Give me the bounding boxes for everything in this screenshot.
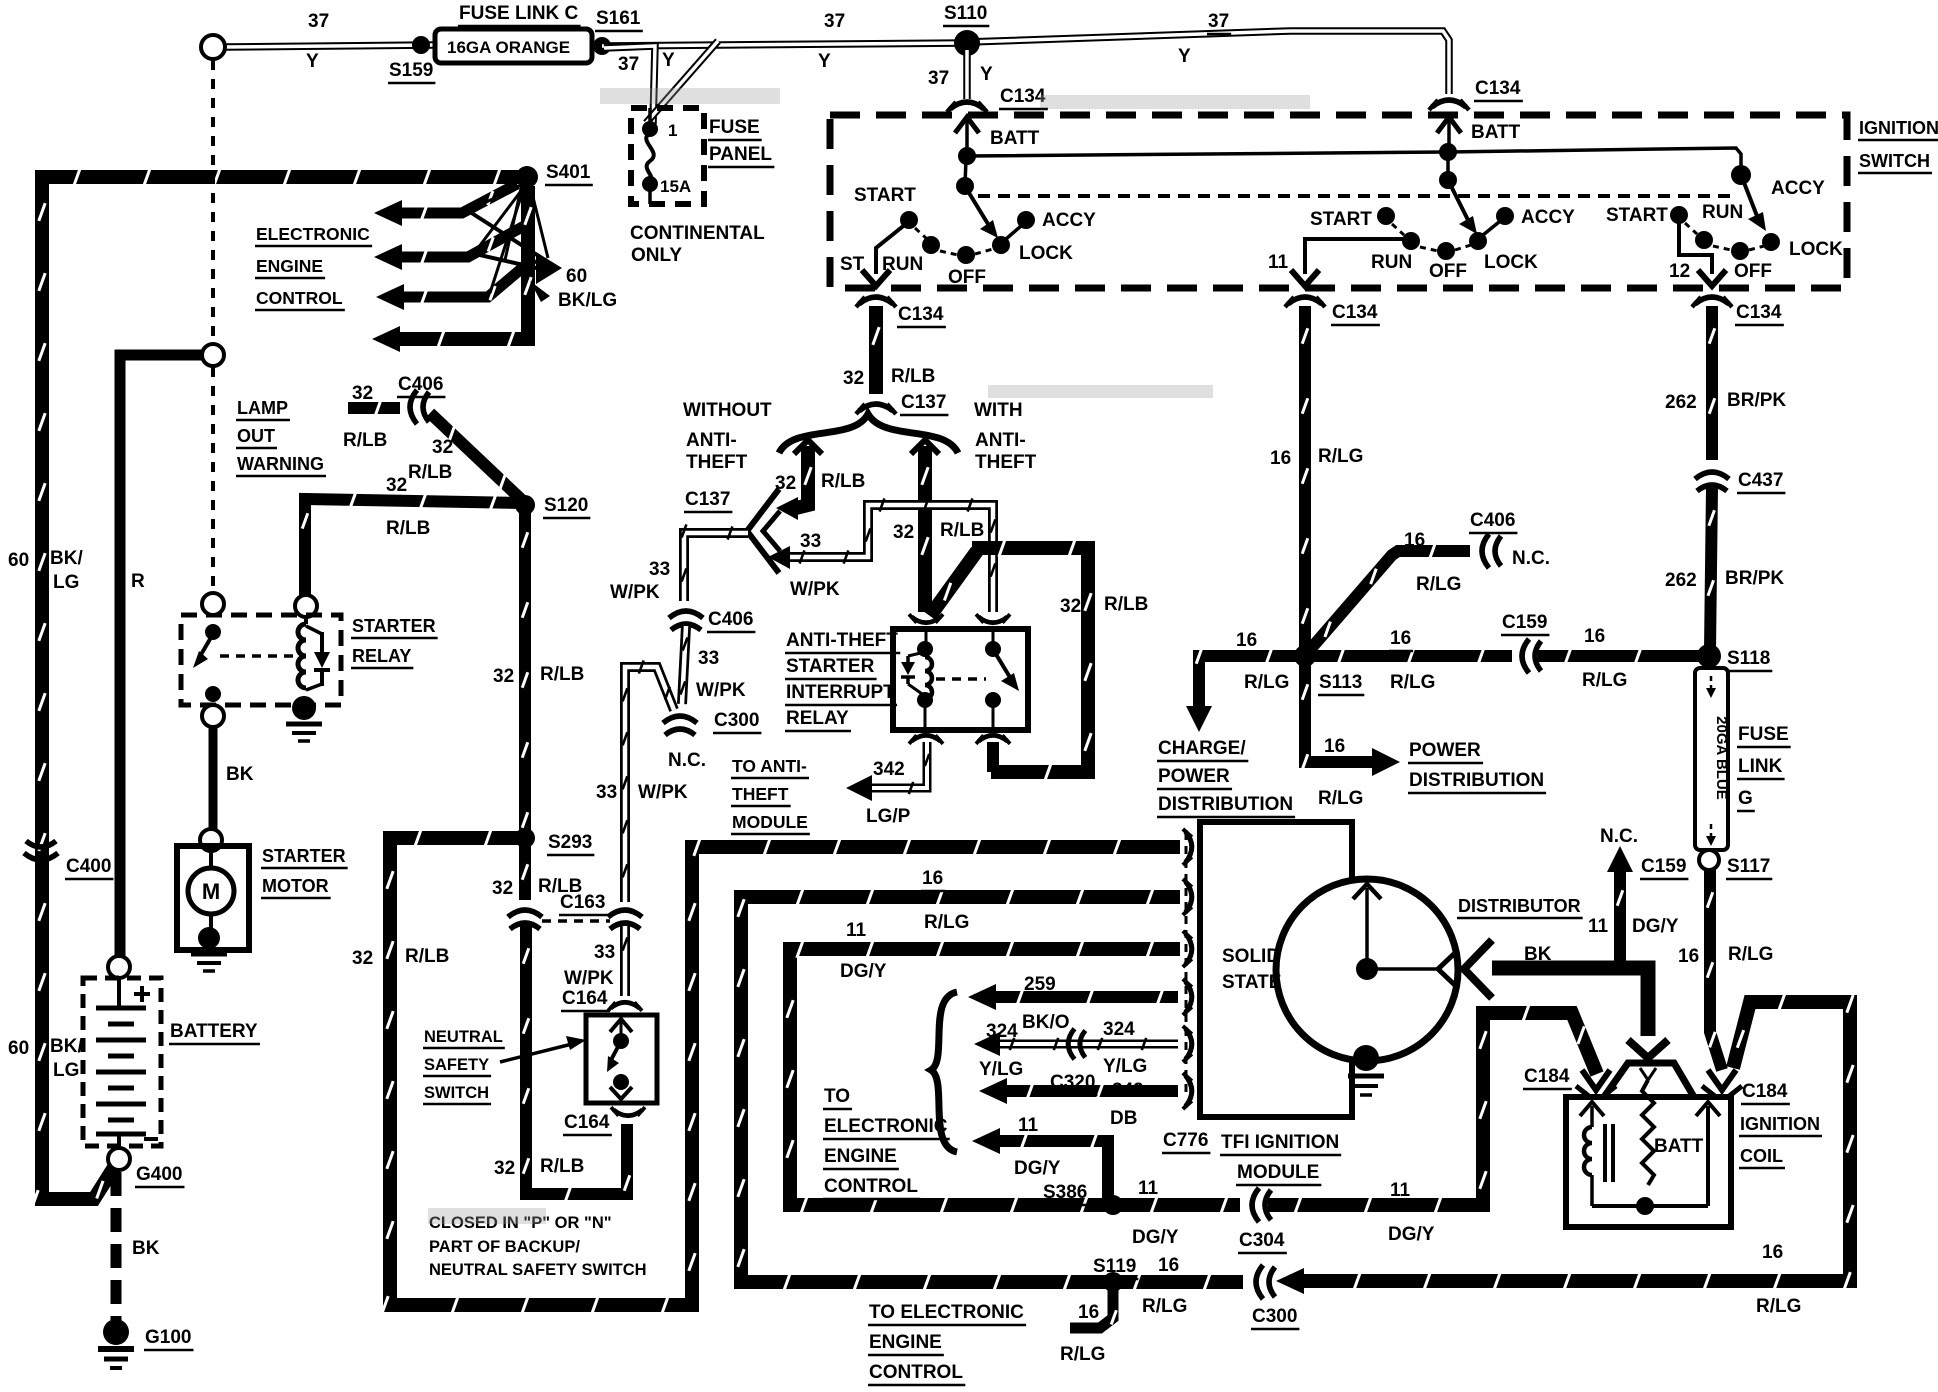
svg-text:STATE: STATE	[1222, 972, 1281, 993]
connector C406 mid	[669, 611, 703, 630]
node S159	[412, 36, 430, 54]
relay pin arc bottom-left	[909, 735, 943, 744]
svg-text:16: 16	[1236, 630, 1257, 651]
svg-text:LINK: LINK	[1738, 756, 1783, 777]
svg-text:R/LG: R/LG	[1756, 1296, 1801, 1317]
svg-text:R/LG: R/LG	[924, 912, 969, 933]
node S293	[515, 828, 535, 848]
wire 33 W/PK C163 to C164	[623, 926, 628, 996]
rotor arrowhead	[1353, 884, 1381, 899]
node S401	[516, 166, 538, 188]
svg-text:WITH: WITH	[974, 400, 1023, 421]
batt feed line	[967, 148, 1741, 168]
svg-text:R/LB: R/LB	[540, 664, 584, 685]
wire 262 BR/PK C437 to S118	[1708, 488, 1714, 650]
battery plus	[140, 986, 144, 1002]
relay inner left lead	[925, 632, 928, 644]
svg-text:FUSE: FUSE	[709, 117, 760, 138]
svg-text:16: 16	[1078, 1302, 1099, 1323]
svg-text:C406: C406	[398, 374, 443, 395]
wire 33 W/PK C137 to C406	[682, 524, 748, 601]
arrowhead 60 BK/LG right	[536, 252, 562, 284]
module arc pin 4	[1183, 979, 1192, 1015]
svg-text:R/LB: R/LB	[386, 518, 430, 539]
svg-text:16: 16	[1584, 626, 1605, 647]
node G400 open circle	[108, 1148, 130, 1170]
relay pin arc bottom-right	[976, 735, 1010, 744]
svg-text:12: 12	[1669, 261, 1690, 282]
svg-text:LG/P: LG/P	[866, 806, 911, 827]
mid bank contact LOCK	[1469, 232, 1487, 250]
mid bank contact ACCY	[1496, 207, 1514, 225]
diagonal 32 R/LB into relay left pin	[930, 551, 977, 616]
connector C164 top	[608, 1002, 642, 1011]
svg-text:POWER: POWER	[1409, 740, 1481, 761]
TFI module box	[1200, 822, 1352, 1117]
svg-text:Y: Y	[662, 50, 675, 71]
arrow EEC 4	[372, 326, 400, 352]
svg-text:R/LB: R/LB	[343, 430, 387, 451]
svg-text:DISTRIBUTION: DISTRIBUTION	[1409, 770, 1544, 791]
svg-text:C134: C134	[1332, 302, 1378, 323]
fuse link C box 16GA ORANGE	[435, 29, 592, 63]
right bank dashed arcs	[1685, 223, 1697, 234]
left bank ACCY-LOCK link	[1006, 226, 1021, 239]
fuse link G box	[1695, 668, 1728, 850]
arrow power distribution	[1372, 748, 1400, 776]
wire S119 stub down	[1070, 1287, 1116, 1328]
svg-text:OFF: OFF	[1734, 261, 1772, 282]
svg-text:CHARGE/: CHARGE/	[1158, 738, 1246, 759]
ground G100	[98, 1346, 134, 1352]
wire S113 to C159	[1311, 648, 1512, 663]
svg-text:37: 37	[618, 54, 639, 75]
svg-text:32: 32	[843, 368, 864, 389]
svg-text:Y: Y	[1178, 46, 1191, 67]
relay ground dot	[292, 696, 316, 720]
arrow 11 DG/Y	[972, 1128, 1000, 1154]
connector C184 left	[1582, 1070, 1610, 1090]
svg-text:262: 262	[1665, 392, 1697, 413]
svg-text:BK/: BK/	[50, 548, 83, 569]
fuse link G dashes	[1710, 676, 1713, 690]
motor M circle	[188, 868, 234, 914]
wire S401 branch down	[392, 186, 531, 348]
BATT arrow right	[1437, 117, 1461, 133]
svg-text:THEFT: THEFT	[732, 784, 789, 804]
svg-text:ENGINE: ENGINE	[256, 256, 323, 276]
svg-text:32: 32	[494, 1158, 515, 1179]
right bank contact LOCK	[1762, 233, 1780, 251]
module arc pin 1	[1183, 829, 1192, 865]
svg-text:C437: C437	[1738, 470, 1783, 491]
wire BK relay to motor	[209, 727, 218, 830]
svg-text:G100: G100	[145, 1327, 191, 1348]
right bank contact RUN	[1695, 231, 1713, 249]
wire relay BR pin to loop	[987, 742, 999, 772]
connector C400	[24, 841, 58, 860]
svg-text:G400: G400	[136, 1164, 182, 1185]
pickup line	[1367, 967, 1442, 971]
svg-text:324: 324	[1103, 1019, 1135, 1040]
svg-text:WITHOUT: WITHOUT	[683, 400, 772, 421]
arrow DB	[979, 1078, 1007, 1104]
relay inner right lead	[992, 632, 995, 644]
connector C159	[1522, 639, 1541, 673]
svg-text:C304: C304	[1239, 1230, 1285, 1251]
wire 11 DG/Y C304 to coil C184 left	[1268, 1004, 1597, 1214]
node open circle battery top	[108, 956, 130, 978]
left bank contact RUN	[922, 236, 940, 254]
wire 16 R/LG loop coil to C300	[1296, 993, 1853, 1290]
wire 33 W/PK to relay right pin	[784, 498, 995, 612]
svg-text:33: 33	[698, 648, 719, 669]
svg-text:R/LB: R/LB	[540, 1156, 584, 1177]
svg-text:START: START	[1310, 209, 1372, 230]
svg-text:BK: BK	[132, 1238, 160, 1259]
wire charge branch	[1196, 648, 1299, 706]
svg-text:MODULE: MODULE	[1237, 1162, 1319, 1183]
svg-text:CONTINENTAL: CONTINENTAL	[630, 223, 765, 244]
coil left chevron	[1580, 1102, 1604, 1116]
switch arm mid	[1449, 182, 1468, 220]
svg-text:Y: Y	[818, 51, 831, 72]
connector C300 bottom	[1256, 1265, 1275, 1299]
svg-text:16: 16	[1404, 530, 1425, 551]
svg-text:S161: S161	[596, 8, 641, 29]
connector C137 lower chevrons	[747, 489, 779, 573]
svg-text:C406: C406	[708, 609, 753, 630]
ignition coil top trapezoid	[1604, 1063, 1694, 1097]
svg-text:RUN: RUN	[1371, 252, 1412, 273]
svg-text:C300: C300	[1252, 1306, 1297, 1327]
svg-text:16: 16	[1762, 1242, 1783, 1263]
svg-text:BK/LG: BK/LG	[558, 290, 617, 311]
svg-text:16: 16	[1390, 628, 1411, 649]
svg-text:S401: S401	[546, 162, 591, 183]
svg-text:ACCY: ACCY	[1771, 178, 1825, 199]
svg-text:R/LG: R/LG	[1318, 446, 1363, 467]
wire S110 down to C134	[963, 50, 971, 99]
arrow 12	[1698, 270, 1726, 286]
ST output line	[876, 223, 907, 274]
svg-text:DG/Y: DG/Y	[1388, 1224, 1435, 1245]
svg-text:BR/PK: BR/PK	[1727, 390, 1786, 411]
wire 16 R/LG C134 to S113	[1302, 306, 1308, 650]
node open circle relay switch top	[202, 593, 224, 615]
coil secondary winding	[1590, 1106, 1594, 1127]
svg-text:11: 11	[1390, 1180, 1411, 1201]
arrow EEC 2	[374, 244, 402, 270]
right bank contact START	[1670, 206, 1688, 224]
BK arrow into distributor	[1464, 940, 1492, 998]
wire power distribution branch	[1302, 662, 1372, 770]
inner fine dashed line	[978, 194, 1738, 198]
svg-text:20GA BLUE: 20GA BLUE	[1713, 716, 1730, 800]
arrow 324	[974, 1032, 1000, 1056]
svg-text:S118: S118	[1727, 648, 1770, 669]
svg-text:C300: C300	[714, 710, 759, 731]
wire DB	[1000, 1083, 1178, 1098]
arrow 342 to anti-theft module	[846, 775, 872, 801]
svg-text:R/LB: R/LB	[891, 366, 935, 387]
battery bottom lead	[117, 1134, 121, 1148]
left bank contact LOCK	[992, 236, 1010, 254]
node S118	[1697, 644, 1721, 668]
relay diode	[306, 626, 322, 634]
svg-text:STARTER: STARTER	[352, 616, 436, 636]
svg-text:R/LG: R/LG	[1318, 788, 1363, 809]
ground starter motor	[191, 952, 227, 957]
relay switch arm	[994, 651, 1011, 679]
coil right chevron	[1696, 1102, 1720, 1116]
svg-text:R/LB: R/LB	[940, 520, 984, 541]
wire 324 Y/LG thin	[994, 1038, 1178, 1050]
svg-text:R/LG: R/LG	[1728, 944, 1773, 965]
svg-text:R/LG: R/LG	[1416, 574, 1461, 595]
svg-text:32: 32	[386, 475, 407, 496]
anti-theft relay box	[893, 629, 1028, 730]
svg-text:16GA ORANGE: 16GA ORANGE	[447, 38, 570, 57]
right bank contact OFF	[1731, 242, 1749, 260]
arrow EEC 1	[374, 200, 402, 226]
wire 32 R/LB right branch to relay	[922, 446, 928, 612]
connector C184 right	[1708, 1070, 1736, 1090]
NSS bottom chevron	[610, 1087, 632, 1099]
fuse panel dashed box	[631, 108, 704, 204]
wire 37 Y S161 to S110	[602, 43, 966, 46]
svg-text:S113: S113	[1319, 672, 1362, 693]
svg-text:C776: C776	[1163, 1130, 1208, 1151]
svg-text:CONTROL: CONTROL	[256, 288, 343, 308]
svg-text:32: 32	[1060, 596, 1081, 617]
svg-text:33: 33	[594, 942, 615, 963]
svg-text:DISTRIBUTOR: DISTRIBUTOR	[1458, 896, 1581, 916]
noise patch 1	[600, 88, 780, 104]
svg-text:16: 16	[1270, 448, 1291, 469]
connector C304	[1252, 1188, 1271, 1222]
coil primary winding zigzag	[1642, 1080, 1654, 1185]
svg-text:C137: C137	[685, 489, 730, 510]
switch arm right	[1743, 180, 1757, 216]
svg-text:R/LG: R/LG	[1582, 670, 1627, 691]
left bank contact ACCY	[1017, 211, 1035, 229]
relay inner coil	[925, 657, 932, 699]
svg-text:BATT: BATT	[1471, 122, 1521, 143]
svg-text:ELECTRONIC: ELECTRONIC	[256, 224, 370, 244]
svg-text:32: 32	[432, 437, 453, 458]
wire 32 R/LB inner loop to C164 bottom	[523, 926, 630, 1202]
svg-text:TO ANTI-: TO ANTI-	[732, 756, 807, 776]
svg-text:N.C.: N.C.	[668, 750, 706, 771]
fuse panel bottom lead	[648, 187, 652, 204]
svg-text:16: 16	[1324, 736, 1345, 757]
switch arm left	[966, 188, 988, 224]
connector C134 top left	[947, 102, 987, 112]
svg-text:MODULE: MODULE	[732, 812, 808, 832]
svg-text:NEUTRAL: NEUTRAL	[424, 1028, 503, 1046]
arrow N.C. C159 up	[1607, 846, 1633, 872]
NSS top chevron	[610, 1019, 632, 1032]
dashed link between C163 halves	[542, 919, 610, 923]
svg-text:33: 33	[596, 782, 617, 803]
connector C406 top	[410, 390, 429, 424]
wire 342 LG/P	[866, 742, 929, 794]
svg-text:LG: LG	[53, 1060, 79, 1081]
svg-text:BK/O: BK/O	[1022, 1012, 1070, 1033]
wire 32 R/LB C134 to C137	[873, 306, 879, 394]
svg-text:60: 60	[566, 266, 587, 287]
brace TO EEC	[931, 992, 957, 1152]
svg-text:R/LB: R/LB	[408, 462, 452, 483]
svg-text:BK: BK	[1524, 944, 1552, 965]
svg-text:LAMP: LAMP	[237, 398, 288, 418]
distributor rotor line	[1365, 888, 1369, 968]
svg-text:C159: C159	[1502, 612, 1547, 633]
ACCY dot right bank	[1731, 165, 1751, 185]
node S119	[1103, 1272, 1123, 1292]
module arc pin 6	[1183, 1073, 1192, 1109]
noise patch 2	[1040, 95, 1310, 109]
svg-text:262: 262	[1665, 570, 1697, 591]
svg-text:W/PK: W/PK	[696, 680, 746, 701]
left bank contact START	[900, 211, 918, 229]
wire BK battery to G100 dashed	[111, 1172, 122, 1320]
connector C163 left	[508, 910, 542, 929]
wire 33 W/PK C406 to C300	[680, 626, 687, 704]
svg-text:C164: C164	[564, 1112, 610, 1133]
svg-text:R/LG: R/LG	[1060, 1344, 1105, 1365]
connector C134 bottom left	[856, 297, 896, 307]
svg-text:DISTRIBUTION: DISTRIBUTION	[1158, 794, 1293, 815]
wire 16 R/LG loop B to S119 C300	[738, 888, 1243, 1291]
neutral safety switch box	[586, 1015, 657, 1103]
svg-text:S159: S159	[389, 60, 433, 81]
coil core bars	[1603, 1124, 1607, 1182]
svg-text:LOCK: LOCK	[1789, 239, 1843, 260]
connector C164 bottom	[611, 1107, 645, 1116]
node open circle top-left	[201, 35, 225, 59]
connector C134 top right	[1429, 100, 1469, 110]
relay inner dot TL	[917, 641, 933, 657]
svg-text:CONTROL: CONTROL	[869, 1362, 963, 1383]
svg-text:R/LG: R/LG	[1244, 672, 1289, 693]
mid bank contact OFF	[1437, 242, 1455, 260]
fuse panel top lead	[648, 108, 652, 126]
svg-text:324: 324	[986, 1021, 1018, 1042]
relay inner diode	[908, 652, 925, 656]
svg-text:BK: BK	[226, 764, 254, 785]
svg-text:11: 11	[1018, 1115, 1039, 1136]
battery dashed box	[83, 978, 161, 1146]
wire R	[120, 355, 202, 957]
wire C159 to S118	[1538, 648, 1702, 663]
node S386	[1103, 1195, 1123, 1215]
svg-text:G: G	[1738, 788, 1753, 809]
svg-text:STARTER: STARTER	[262, 846, 346, 866]
svg-text:C134: C134	[898, 304, 944, 325]
svg-text:R/LG: R/LG	[1390, 672, 1435, 693]
svg-text:11: 11	[846, 920, 867, 941]
svg-text:C163: C163	[560, 892, 605, 913]
svg-text:CONTROL: CONTROL	[824, 1176, 918, 1197]
svg-text:START: START	[1606, 205, 1668, 226]
svg-text:S117: S117	[1727, 856, 1770, 877]
svg-text:NEUTRAL SAFETY SWITCH: NEUTRAL SAFETY SWITCH	[429, 1261, 647, 1279]
START output line 12	[1679, 218, 1712, 274]
svg-text:OUT: OUT	[237, 426, 275, 446]
wire diagonal fuse panel to S110 line	[646, 41, 718, 123]
connector C406 NC	[1482, 534, 1501, 568]
svg-text:S120: S120	[544, 495, 588, 516]
mid bank contact START	[1377, 207, 1395, 225]
wire 32 R/LB left branch	[792, 446, 811, 509]
svg-text:C159: C159	[1641, 856, 1686, 877]
node S113	[1294, 645, 1316, 667]
svg-text:C134: C134	[1000, 86, 1046, 107]
battery top lead	[117, 978, 121, 1008]
connector C320	[1068, 1029, 1085, 1060]
node S120	[515, 495, 535, 515]
ground distributor	[1348, 1074, 1384, 1079]
relay pin arc top-left	[909, 614, 943, 623]
wire 33 W/PK C300 down to C163 right	[623, 660, 674, 902]
connector C137 top	[856, 404, 896, 414]
svg-text:37: 37	[308, 11, 329, 32]
wire EEC arrow 2	[394, 226, 524, 264]
svg-text:THEFT: THEFT	[686, 452, 748, 473]
svg-text:C137: C137	[901, 392, 946, 413]
wire S110 right to ignition switch C134	[968, 31, 1449, 94]
relay inner dot TR	[985, 641, 1001, 657]
svg-text:IGNITION: IGNITION	[1859, 118, 1938, 138]
svg-text:R/LB: R/LB	[821, 471, 865, 492]
svg-text:Y/LG: Y/LG	[979, 1059, 1023, 1080]
coil center terminal	[1640, 1068, 1648, 1080]
distributor circle	[1276, 879, 1458, 1061]
svg-text:RELAY: RELAY	[786, 708, 849, 729]
svg-text:32: 32	[352, 383, 373, 404]
relay contact dot lower	[205, 686, 221, 702]
battery minus	[144, 1137, 158, 1141]
pickup open arrow	[1438, 950, 1458, 988]
svg-text:POWER: POWER	[1158, 766, 1230, 787]
fuse panel pin 15A	[642, 176, 658, 192]
svg-text:37: 37	[824, 11, 845, 32]
motor ground dot	[198, 927, 220, 949]
svg-text:LOCK: LOCK	[1484, 252, 1538, 273]
svg-text:R/LG: R/LG	[1142, 1296, 1187, 1317]
arrow into C137 lower	[768, 546, 790, 569]
wire S293 to C163	[522, 842, 528, 900]
svg-text:ACCY: ACCY	[1521, 207, 1575, 228]
left branch chevron	[794, 440, 822, 454]
svg-text:OFF: OFF	[948, 267, 986, 288]
svg-text:DG/Y: DG/Y	[840, 961, 887, 982]
distributor bottom dot	[1353, 1045, 1379, 1071]
svg-text:TFI IGNITION: TFI IGNITION	[1221, 1132, 1339, 1153]
svg-text:C184: C184	[1742, 1081, 1788, 1102]
svg-text:MOTOR: MOTOR	[262, 876, 329, 896]
motor lead	[209, 851, 213, 868]
left bank contact OFF	[957, 246, 975, 264]
wire 32 R/LB outer loop to TFI module	[382, 829, 1180, 1314]
ground starter relay	[286, 722, 322, 727]
arrow EEC 3	[376, 284, 404, 310]
feed dot left1	[958, 147, 976, 165]
node open circle relay bottom	[202, 705, 224, 727]
svg-text:11: 11	[1268, 252, 1289, 273]
